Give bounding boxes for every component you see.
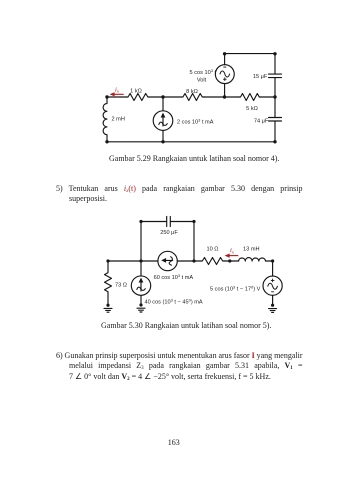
current arrow ix (red) circuit 1 <box>110 92 124 96</box>
wire top branch down to node C <box>193 222 195 262</box>
current source I 40mA circle <box>131 276 150 295</box>
svg-text:40 cos (103 t − 450) mA: 40 cos (103 t − 450) mA <box>145 297 203 305</box>
current source I 60mA arrow <box>161 257 173 266</box>
svg-text:2 cos 103 t mA: 2 cos 103 t mA <box>177 117 214 125</box>
wire top branch right <box>171 221 195 223</box>
voltage source V1 sine <box>220 71 230 77</box>
node dot top-right corner <box>273 52 276 55</box>
svg-text:ix: ix <box>230 247 234 254</box>
current source I 60mA wire B to circle <box>141 260 158 262</box>
resistor R 5 kOhm <box>239 94 261 101</box>
resistor R 73 Ohm branch wire top <box>107 261 109 271</box>
caption figure 5.29 <box>109 154 279 165</box>
current source I 60mA wire circle to node C <box>177 260 194 262</box>
voltage source V2 stub bottom <box>272 295 274 305</box>
svg-text:Volt: Volt <box>197 77 207 83</box>
svg-text:ix: ix <box>115 86 119 93</box>
current source I 40mA stub top <box>140 261 142 276</box>
problem item 6 line 2 <box>69 361 303 372</box>
svg-text:74 μF: 74 μF <box>254 119 269 125</box>
svg-text:1 kΩ: 1 kΩ <box>130 89 142 95</box>
node dot D <box>228 259 231 262</box>
wire corner down to V2 <box>272 261 274 276</box>
node dot above ground G3 <box>271 304 274 307</box>
node dot above ground G2 <box>139 303 142 306</box>
svg-text:8 kΩ: 8 kΩ <box>186 89 198 95</box>
node dot B top <box>161 95 164 98</box>
wire inductor to corner <box>266 260 273 262</box>
resistor R 10 Ohm <box>201 258 225 265</box>
wire node C to 10 Ohm <box>194 260 201 262</box>
wire 1k to node B <box>149 96 163 98</box>
wire right rail upper <box>274 54 276 75</box>
ground G1 <box>104 308 112 312</box>
current source I1 circle 2cos mA <box>153 111 173 131</box>
svg-text:250 μF: 250 μF <box>160 230 178 236</box>
svg-text:73 Ω: 73 Ω <box>115 283 127 289</box>
node dot C <box>192 259 195 262</box>
resistor R 73 Ohm <box>105 271 112 293</box>
node dot top-left <box>105 95 108 98</box>
voltage source V2 sine <box>268 283 278 289</box>
wire 5k to right rail <box>261 96 276 98</box>
wire right rail lower <box>274 121 276 142</box>
svg-text:60 cos 103 t mA: 60 cos 103 t mA <box>154 273 194 281</box>
wire top-left horizontal (node to 1k) <box>107 96 126 98</box>
current source I1 arrow <box>159 113 168 126</box>
wire bottom horizontal <box>107 141 275 143</box>
node dot B <box>139 259 142 262</box>
wire right rail mid <box>274 78 276 118</box>
current source I 60mA circle <box>158 251 177 270</box>
wire top right horizontal <box>225 53 275 55</box>
wire 8k to node C <box>204 96 225 98</box>
node dot top branch right <box>192 220 195 223</box>
node dot bottom-right <box>273 140 276 143</box>
resistor R 8 kOhm <box>181 94 204 101</box>
voltage source V1 circle 5cos Volt <box>215 65 234 84</box>
node dot A <box>106 259 109 262</box>
resistor R 1 kOhm <box>126 94 149 101</box>
caption figure 5.30 <box>101 321 271 332</box>
svg-text:10 Ω: 10 Ω <box>207 247 219 253</box>
wire node A to node B <box>108 260 141 262</box>
svg-text:2 mH: 2 mH <box>112 116 125 122</box>
page number <box>168 438 180 447</box>
problem item 5 line 1 <box>56 184 303 195</box>
ground G2 <box>137 308 145 312</box>
voltage source V1 stub top <box>224 54 226 65</box>
capacitor C 250uF <box>167 216 171 226</box>
wire node B up to top branch <box>140 222 142 262</box>
capacitor C 74uF <box>269 118 282 122</box>
svg-text:15 μF: 15 μF <box>253 74 268 80</box>
problem item 5 line 2 <box>69 194 107 205</box>
inductor L 13 mH <box>239 258 266 261</box>
svg-text:13 mH: 13 mH <box>243 247 259 253</box>
wire node C to 5k <box>225 96 240 98</box>
resistor R 73 Ohm branch wire bottom <box>107 293 109 305</box>
current source I 40mA stub bottom <box>140 295 142 305</box>
node dot top branch left <box>139 220 142 223</box>
ground G3 <box>269 309 277 313</box>
svg-text:5 cos 103 t: 5 cos 103 t <box>190 68 217 76</box>
node dot C top <box>223 95 226 98</box>
node dot above ground G1 <box>106 304 109 307</box>
wire top branch left <box>141 221 166 223</box>
voltage source V2 minus sign <box>272 291 274 293</box>
voltage source V1 minus sign <box>224 66 226 68</box>
wire 10 Ohm to node D <box>225 260 239 262</box>
voltage source V1 plus sign <box>223 78 226 81</box>
svg-text:5 cos (103 t − 170) V: 5 cos (103 t − 170) V <box>210 285 261 293</box>
problem item 6 line 1 <box>56 351 303 362</box>
inductor L 2 mH (left branch) <box>103 97 107 142</box>
node dot right-mid <box>273 95 276 98</box>
node dot E <box>271 259 274 262</box>
current arrow ix (red) circuit 2 <box>225 254 239 258</box>
node dot bottom-left <box>105 140 108 143</box>
wire node B to 8k <box>163 96 181 98</box>
svg-text:5 kΩ: 5 kΩ <box>246 106 258 112</box>
label 5 cos 10^3 t Volt <box>190 68 217 84</box>
current source I 40mA arrow <box>137 278 146 291</box>
voltage source V2 plus sign <box>271 279 274 282</box>
current source I1 branch stub top <box>162 97 164 111</box>
current source I1 branch stub bottom <box>162 130 164 141</box>
voltage source V2 circle 5cos V <box>263 276 282 295</box>
node dot B bottom <box>161 140 164 143</box>
problem item 6 line 3 <box>69 372 271 383</box>
capacitor C 15uF <box>269 74 282 78</box>
node dot V1 top <box>223 52 226 55</box>
voltage source V1 stub bottom <box>224 84 226 97</box>
